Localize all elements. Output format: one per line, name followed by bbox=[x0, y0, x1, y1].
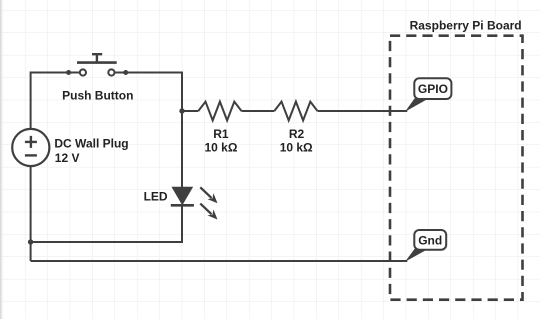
GPIO pin callout bbox=[405, 78, 451, 112]
wire R2 to GPIO bbox=[318, 110, 408, 112]
svg-text:Push Button: Push Button bbox=[62, 89, 133, 103]
wire LED branch bottom bbox=[31, 206, 182, 243]
svg-text:Gnd: Gnd bbox=[418, 234, 442, 248]
svg-text:LED: LED bbox=[144, 190, 168, 204]
svg-text:DC Wall Plug: DC Wall Plug bbox=[54, 136, 128, 150]
svg-text:GPIO: GPIO bbox=[418, 82, 448, 96]
push button actuator stem bbox=[96, 54, 98, 62]
resistor R1 bbox=[198, 102, 241, 121]
svg-text:Raspberry Pi Board: Raspberry Pi Board bbox=[410, 18, 522, 32]
push button contact circle right bbox=[108, 69, 114, 75]
push button contact circle left bbox=[80, 69, 86, 75]
node junction at resistor tap bbox=[179, 108, 184, 113]
Gnd callout tail bbox=[405, 249, 428, 262]
push button terminal dot left bbox=[66, 70, 71, 75]
push button actuator cap bbox=[92, 53, 102, 55]
svg-text:R2: R2 bbox=[289, 127, 305, 141]
wire bottom ground run bbox=[31, 260, 408, 262]
LED D1 bbox=[171, 187, 218, 219]
left edge shade bbox=[0, 0, 2, 319]
minus sign bbox=[25, 154, 37, 156]
Gnd callout bubble bbox=[414, 230, 446, 250]
GPIO callout tail bbox=[405, 99, 429, 112]
voltage source V1 DC wall plug bbox=[12, 129, 49, 166]
Raspberry Pi Board dashed boundary bbox=[390, 36, 523, 300]
wire node to LED top bbox=[181, 110, 183, 188]
source circle bbox=[12, 129, 49, 166]
svg-text:10 kΩ: 10 kΩ bbox=[205, 141, 238, 155]
push button terminal dot right bbox=[123, 70, 128, 75]
Gnd pin callout bbox=[405, 230, 446, 262]
resistor R2 bbox=[274, 102, 317, 121]
svg-text:10 kΩ: 10 kΩ bbox=[280, 141, 313, 155]
push button bridge bar bbox=[77, 61, 117, 64]
wire node to R1 bbox=[182, 110, 198, 112]
wire left vertical below source bbox=[30, 166, 32, 261]
svg-text:12 V: 12 V bbox=[55, 151, 80, 165]
LED light arrow upper bbox=[200, 187, 217, 203]
svg-text:R1: R1 bbox=[213, 127, 229, 141]
wire R1 to R2 bbox=[242, 110, 275, 112]
LED cathode bar bbox=[171, 204, 194, 207]
GPIO callout bubble bbox=[414, 78, 451, 99]
push button SW1 bbox=[66, 54, 128, 75]
wire top from push button to corner, down to node bbox=[114, 73, 182, 111]
LED triangle anode bbox=[172, 187, 192, 204]
plus sign bbox=[25, 136, 37, 148]
node junction on left rail bbox=[28, 239, 33, 244]
LED light arrow lower bbox=[200, 204, 217, 220]
wire top from source to push button bbox=[31, 73, 80, 129]
